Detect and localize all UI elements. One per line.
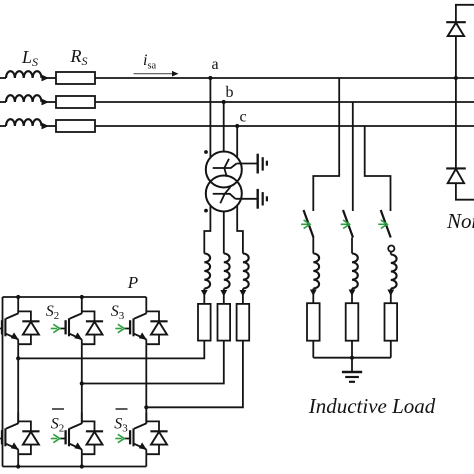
resistor Rs phase c bbox=[56, 120, 95, 132]
diode D2 cathode bar bbox=[86, 320, 103, 322]
resistor filter phase 1 bbox=[198, 304, 211, 341]
igbt S1 top emitter arrowhead bbox=[11, 332, 19, 339]
wire filter 2 to inverter leg 2 bbox=[82, 341, 224, 384]
wire collector branch S3bar bottom bbox=[145, 412, 147, 423]
wire diode branch bottom S1bar bottom bbox=[18, 445, 31, 455]
wire load coil to resistor 3 bbox=[390, 289, 392, 304]
svg-text:isa: isa bbox=[143, 52, 157, 72]
wire diode branch top S2bar bottom bbox=[82, 421, 95, 431]
label S3bar overbar bbox=[116, 408, 128, 410]
diode D8 triangle bbox=[448, 169, 464, 183]
wire collector branch S2bar bottom bbox=[81, 412, 83, 423]
wire DC bus left bbox=[2, 297, 4, 467]
wire filter 1 to inverter leg 1 bbox=[18, 341, 204, 359]
gate drive arrow S2bar bbox=[53, 434, 60, 442]
wire inductive drop phase c bbox=[365, 126, 391, 211]
diode D3 cathode bar bbox=[150, 320, 167, 322]
switch blade phase 3 bbox=[381, 210, 391, 238]
wire primary drop c bbox=[236, 126, 238, 158]
resistor load phase 3 bbox=[385, 303, 398, 341]
switch contact circle phase 3 bbox=[388, 246, 394, 252]
wire diode branch bottom S1 top bbox=[18, 335, 31, 345]
igbt S2bar bottom gate lead bbox=[60, 438, 66, 440]
wire leg 3 bottom segment bbox=[145, 454, 147, 466]
igbt S1bar bottom collector lead bbox=[6, 423, 18, 428]
wire collector branch S1bar bottom bbox=[17, 412, 19, 423]
igbt S1bar bottom emitter arrowhead bbox=[11, 442, 19, 449]
igbt S1 top body bar bbox=[4, 318, 6, 336]
diode D7 triangle bbox=[448, 23, 464, 36]
switch actuator arrow phase 3 bbox=[381, 220, 388, 228]
diode D6 cathode bar bbox=[150, 430, 167, 432]
wire nonlinear mid bbox=[455, 36, 457, 168]
label S2bar overbar bbox=[52, 408, 64, 410]
inductor load phase 2 bbox=[352, 254, 358, 289]
wire diode branch bottom S2bar bottom bbox=[82, 445, 95, 455]
wire diode branch top S3 top bbox=[146, 311, 159, 321]
wire load coil to resistor 2 bbox=[351, 289, 353, 304]
diode D8 cathode bar bbox=[446, 167, 466, 169]
igbt S3 top emitter arrowhead bbox=[139, 332, 147, 339]
igbt S1 top gate bar bbox=[1, 320, 3, 334]
wire contact to coil phase 3 bbox=[390, 252, 392, 255]
switch blade phase 2 bbox=[343, 210, 353, 238]
polarity dot secondary bbox=[204, 209, 208, 213]
junction dot leg1 top bbox=[16, 295, 20, 299]
arrowhead filter phase 1 bbox=[201, 290, 208, 297]
igbt S3bar bottom gate bar bbox=[129, 430, 131, 444]
wire diode branch bottom S2 top bbox=[82, 335, 95, 345]
wire filter coil to resistor 1 bbox=[203, 289, 205, 304]
igbt S1bar bottom gate lead bbox=[0, 438, 2, 440]
arrowhead load phase 1 bbox=[310, 290, 317, 297]
wire collector branch S3 top bbox=[145, 297, 147, 314]
polarity dot primary bbox=[204, 150, 208, 154]
junction dot leg2 top bbox=[80, 295, 84, 299]
arrowhead phase b current direction bbox=[42, 99, 50, 106]
node a bbox=[208, 76, 212, 80]
inductor filter phase 2 bbox=[224, 254, 230, 289]
wire diode branch bottom S3 top bbox=[146, 335, 159, 345]
switch actuator arrow phase 2 bbox=[343, 220, 350, 228]
arrowhead phase c current direction bbox=[42, 123, 50, 130]
wire nonlinear top bbox=[456, 5, 474, 22]
diode D1 cathode bar bbox=[22, 320, 39, 322]
igbt S1 top collector lead bbox=[6, 313, 18, 318]
resistor load phase 1 bbox=[307, 303, 320, 341]
node c bbox=[235, 124, 239, 128]
svg-text:Inductive Load: Inductive Load bbox=[308, 394, 436, 418]
wire emitter branch S3 top bbox=[145, 339, 147, 344]
wire phase a bus bbox=[95, 77, 474, 79]
junction dot leg1 bottom bbox=[16, 464, 20, 468]
wire leg 2 mid segment bbox=[81, 344, 83, 423]
resistor Rs phase b bbox=[56, 96, 95, 108]
junction dot leg1 midpoint bbox=[16, 356, 20, 360]
diode D4 triangle bbox=[23, 432, 39, 445]
wire leg 1 mid segment bbox=[17, 344, 19, 423]
wire diode branch top S3bar bottom bbox=[146, 421, 159, 431]
wye symbol secondary bbox=[213, 193, 225, 195]
wire inductive drop phase b bbox=[352, 102, 354, 211]
igbt S1 top gate lead bbox=[0, 328, 2, 330]
arrowhead filter phase 2 bbox=[220, 290, 227, 297]
arrow isa bbox=[134, 73, 173, 75]
wire load resistor lead 3 bbox=[390, 341, 392, 358]
inductor Ls phase c bbox=[6, 119, 42, 126]
diode D2 triangle bbox=[87, 322, 103, 335]
wire leg 1 bottom segment bbox=[17, 454, 19, 466]
diode D7 cathode bar bbox=[446, 21, 466, 23]
gate drive arrow S2 bbox=[53, 324, 60, 332]
svg-text:Non: Non bbox=[446, 209, 474, 233]
gate drive arrow S3bar bbox=[118, 434, 125, 442]
svg-text:S3: S3 bbox=[111, 303, 125, 322]
wire load neutral bus bbox=[313, 357, 391, 359]
igbt S2 top emitter lead bbox=[70, 334, 82, 340]
wire collector branch S1 top bbox=[17, 297, 19, 314]
diode D4 cathode bar bbox=[22, 430, 39, 432]
igbt S2bar bottom emitter lead bbox=[70, 444, 82, 450]
igbt S3bar bottom emitter arrowhead bbox=[139, 442, 147, 449]
junction dot leg2 bottom bbox=[80, 464, 84, 468]
wire switch to coil phase 1 bbox=[312, 238, 314, 254]
igbt S3bar bottom body bar bbox=[132, 428, 134, 446]
svg-text:LS: LS bbox=[21, 47, 38, 69]
wire phase b bus bbox=[95, 101, 474, 103]
arrowhead load phase 3 bbox=[387, 290, 394, 297]
wire phase a coil to resistor bbox=[42, 77, 57, 79]
wire secondary phase 2 bbox=[223, 212, 225, 254]
wire phase c bus bbox=[95, 125, 474, 127]
wire emitter branch S3bar bottom bbox=[145, 449, 147, 454]
diode D1 triangle bbox=[23, 322, 39, 335]
igbt S3bar bottom emitter lead bbox=[134, 444, 146, 450]
arrowhead load phase 2 bbox=[349, 290, 356, 297]
inductor filter phase 1 bbox=[204, 254, 210, 289]
wire load coil to resistor 1 bbox=[312, 289, 314, 304]
wire diode branch bottom S3bar bottom bbox=[146, 445, 159, 455]
wire phase a source stub bbox=[0, 77, 6, 79]
wire primary neutral to ground bbox=[237, 163, 258, 165]
wire leg 3 mid segment bbox=[145, 344, 147, 423]
igbt S3bar bottom collector lead bbox=[134, 423, 146, 428]
wire emitter branch S1bar bottom bbox=[17, 449, 19, 454]
svg-text:S2: S2 bbox=[46, 303, 60, 322]
wire collector branch S2 top bbox=[81, 297, 83, 314]
wire secondary phase 3 bbox=[237, 206, 243, 254]
wire inductive drop phase a bbox=[313, 78, 339, 211]
junction dot leg2 midpoint bbox=[80, 381, 84, 385]
inductor filter phase 3 bbox=[243, 254, 249, 289]
wire diode branch top S2 top bbox=[82, 311, 95, 321]
igbt S1bar bottom body bar bbox=[4, 428, 6, 446]
wire emitter branch S2bar bottom bbox=[81, 449, 83, 454]
wire primary drop a bbox=[209, 78, 211, 158]
switch actuator arrow phase 1 bbox=[304, 220, 311, 228]
wire emitter branch S1 top bbox=[17, 339, 19, 344]
node b bbox=[222, 100, 226, 104]
ground primary neutral bbox=[257, 154, 259, 174]
wire switch to coil phase 2 bbox=[351, 238, 353, 254]
wire phase c source stub bbox=[0, 125, 6, 127]
wire nonlinear bottom bbox=[456, 183, 474, 200]
junction dot nonlinear phase a bbox=[454, 76, 458, 80]
svg-text:RS: RS bbox=[70, 46, 88, 68]
ground load neutral bbox=[342, 371, 362, 373]
wire filter coil to resistor 3 bbox=[242, 289, 244, 304]
switch blade phase 1 bbox=[304, 210, 314, 238]
wire secondary phase 1 bbox=[204, 206, 210, 254]
igbt S2 top emitter arrowhead bbox=[74, 332, 82, 339]
diode D6 triangle bbox=[151, 432, 167, 445]
junction dot leg3 midpoint bbox=[144, 405, 148, 409]
resistor filter phase 2 bbox=[218, 304, 231, 341]
wire filter coil to resistor 2 bbox=[223, 289, 225, 304]
inductor Ls phase a bbox=[6, 71, 42, 78]
resistor load phase 2 bbox=[346, 303, 359, 341]
svg-text:P: P bbox=[127, 273, 138, 292]
inductor Ls phase b bbox=[6, 95, 42, 102]
transformer primary winding bbox=[206, 152, 242, 188]
wire load resistor lead 2 bbox=[351, 341, 353, 358]
wire phase b coil to resistor bbox=[42, 101, 57, 103]
svg-text:S3: S3 bbox=[114, 416, 128, 435]
igbt S2 top collector lead bbox=[70, 313, 82, 318]
igbt S3bar bottom gate lead bbox=[124, 438, 130, 440]
diode D3 triangle bbox=[151, 322, 167, 335]
resistor Rs phase a bbox=[56, 72, 95, 84]
svg-text:c: c bbox=[239, 109, 246, 126]
svg-text:S2: S2 bbox=[51, 416, 65, 435]
resistor filter phase 3 bbox=[237, 304, 250, 341]
igbt S2bar bottom emitter arrowhead bbox=[74, 442, 82, 449]
wire primary drop b bbox=[223, 102, 225, 152]
igbt S1 top emitter lead bbox=[6, 334, 18, 340]
igbt S1bar bottom emitter lead bbox=[6, 444, 18, 450]
svg-text:b: b bbox=[226, 84, 234, 101]
arrowhead phase a current direction bbox=[42, 75, 50, 82]
wire leg 2 bottom segment bbox=[81, 454, 83, 466]
igbt S3 top collector lead bbox=[134, 313, 146, 318]
igbt S2bar bottom body bar bbox=[68, 428, 70, 446]
igbt S2 top gate lead bbox=[60, 328, 66, 330]
igbt S2 top body bar bbox=[68, 318, 70, 336]
igbt S2bar bottom gate bar bbox=[64, 430, 66, 444]
diode D5 cathode bar bbox=[86, 430, 103, 432]
igbt S3 top gate lead bbox=[124, 328, 130, 330]
arrowhead filter phase 3 bbox=[240, 290, 247, 297]
igbt S2 top gate bar bbox=[64, 320, 66, 334]
wire DC bus negative rail bbox=[3, 466, 147, 468]
wire secondary neutral to ground bbox=[235, 198, 257, 200]
igbt S2bar bottom collector lead bbox=[70, 423, 82, 428]
igbt S3 top body bar bbox=[132, 318, 134, 336]
wire emitter branch S2 top bbox=[81, 339, 83, 344]
wire phase c coil to resistor bbox=[42, 125, 57, 127]
gate drive arrow S3 bbox=[118, 324, 125, 332]
wire diode branch top S1 top bbox=[18, 311, 31, 321]
inductor load phase 3 bbox=[391, 255, 397, 289]
wire DC bus positive rail bbox=[3, 296, 147, 298]
diode D5 triangle bbox=[87, 432, 103, 445]
wye symbol primary bbox=[213, 167, 225, 169]
igbt S1bar bottom gate bar bbox=[1, 430, 3, 444]
wire phase b source stub bbox=[0, 101, 6, 103]
igbt S3 top emitter lead bbox=[134, 334, 146, 340]
igbt S3 top gate bar bbox=[129, 320, 131, 334]
transformer secondary winding bbox=[206, 176, 242, 212]
wire filter 3 to inverter leg 3 bbox=[146, 341, 243, 408]
svg-text:a: a bbox=[211, 56, 218, 73]
wire neutral to ground bbox=[351, 358, 353, 371]
junction dot load neutral bbox=[350, 356, 354, 360]
wire load resistor lead 1 bbox=[312, 341, 314, 358]
ground secondary neutral bbox=[257, 189, 259, 209]
wire diode branch top S1bar bottom bbox=[18, 421, 31, 431]
inductor load phase 1 bbox=[313, 254, 319, 289]
